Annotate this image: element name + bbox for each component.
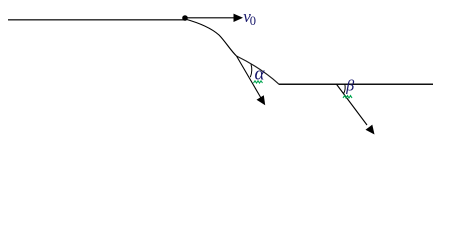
velocity arrow v0 (187, 14, 243, 22)
svg-text:β: β (345, 78, 354, 95)
spellcheck squiggle under beta (343, 96, 352, 98)
impact velocity arrow (alpha) (237, 56, 266, 105)
table surface line (8, 19, 186, 21)
svg-text:0: 0 (250, 14, 256, 28)
ball (projectile dot) (182, 15, 188, 21)
incline segment (237, 56, 279, 84)
angle arc beta (344, 84, 345, 93)
trajectory curve (185, 19, 237, 56)
second impact velocity arrow (beta) (336, 84, 374, 135)
angle arc alpha (250, 64, 252, 77)
svg-text:α: α (255, 63, 266, 84)
spellcheck squiggle under alpha (254, 81, 263, 83)
ground line (279, 83, 434, 85)
